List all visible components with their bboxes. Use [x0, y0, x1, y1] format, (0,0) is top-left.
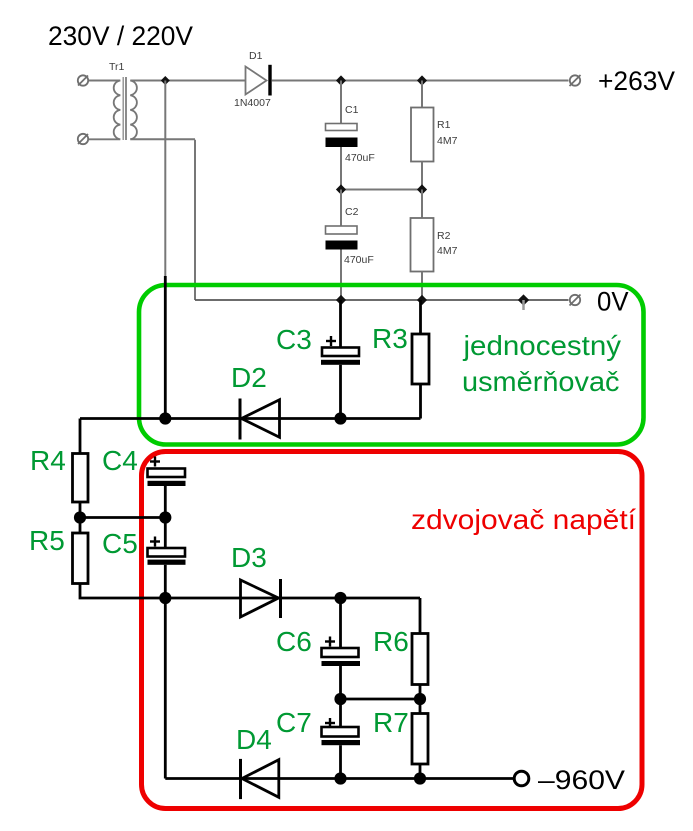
wire R4 bottom lead [79, 502, 82, 518]
capacitor C3 [321, 336, 360, 365]
wire R1 bottom lead [421, 162, 423, 190]
wire R2 top lead [421, 190, 423, 219]
label 4M7 R1 [437, 135, 458, 147]
label R3 [372, 323, 408, 354]
svg-text:Tr1: Tr1 [109, 61, 125, 73]
svg-text:R1: R1 [437, 119, 451, 131]
node 0V at C3 [336, 295, 346, 305]
svg-text:1N4007: 1N4007 [234, 97, 271, 109]
svg-text:R6: R6 [373, 626, 409, 657]
resistor R3 [412, 334, 429, 384]
terminal +263V [570, 75, 581, 86]
node 0V at R3 [417, 295, 427, 305]
svg-text:–960V: –960V [538, 765, 625, 795]
node D2 right [334, 412, 346, 424]
svg-text:4M7: 4M7 [437, 135, 458, 147]
node R1 bottom [417, 184, 427, 194]
wire C3 top lead [339, 300, 342, 348]
wire D4 row [165, 777, 513, 780]
capacitor C4 [148, 457, 186, 487]
wire C6 bottom lead [339, 666, 342, 699]
label C2 [345, 206, 359, 218]
node R6 bottom [414, 693, 426, 705]
wire R6 bottom lead [419, 685, 422, 700]
wire R1 top lead [421, 81, 423, 108]
svg-text:R3: R3 [372, 323, 408, 354]
label R1 [437, 119, 451, 131]
wire R7 bottom lead [419, 764, 422, 779]
node R7 bottom [414, 772, 426, 784]
svg-text:C1: C1 [345, 104, 359, 116]
svg-text:470uF: 470uF [345, 152, 375, 164]
wire C1 bottom lead [340, 147, 342, 190]
wire left drop to D4 [164, 598, 167, 779]
svg-text:C3: C3 [276, 324, 312, 355]
svg-text:C5: C5 [102, 528, 138, 559]
label 1N4007 [234, 97, 271, 109]
wire D2 row [80, 384, 421, 419]
wire C1-R1 bottom row [341, 189, 422, 191]
resistor R6 [412, 634, 428, 685]
wire R5 top lead [79, 518, 82, 534]
label R6 [373, 626, 409, 657]
terminal 0V [570, 295, 581, 306]
wire R7 top lead [419, 699, 422, 714]
wire C2 bottom lead [340, 250, 342, 301]
svg-text:230V / 220V: 230V / 220V [48, 21, 193, 51]
node D2 left [159, 412, 171, 424]
label C6 [276, 626, 312, 657]
label -960V [538, 765, 625, 795]
wire C1 top lead [340, 81, 342, 124]
diode D2 [240, 399, 280, 440]
svg-text:D1: D1 [249, 50, 263, 62]
transformer Tr1 [89, 77, 137, 140]
wire D1 to +263V [272, 80, 569, 82]
wire left column black overlay [164, 276, 167, 419]
node C1 bottom [336, 184, 346, 194]
terminal -960V [514, 771, 529, 786]
wire C6 top lead [339, 598, 342, 648]
label 470uF C2 [344, 254, 374, 266]
diode D4 [241, 759, 279, 799]
wire R3 top lead [419, 300, 422, 334]
label R5 [29, 525, 65, 556]
label zdvojovac napeti [411, 504, 636, 535]
wire C3 bottom lead [339, 365, 342, 419]
diode D3 [241, 579, 281, 618]
label 0V [597, 287, 629, 317]
wire C5 top lead [164, 518, 167, 549]
wire C2 top lead [340, 190, 342, 227]
label C1 [345, 104, 359, 116]
node C4 bottom [159, 511, 171, 523]
svg-text:C6: C6 [276, 626, 312, 657]
svg-text:0V: 0V [597, 287, 629, 317]
node C6 bottom [334, 693, 346, 705]
svg-text:zdvojovač napětí: zdvojovač napětí [411, 504, 636, 535]
resistor R4 [73, 454, 89, 503]
svg-text:R5: R5 [29, 525, 65, 556]
svg-text:D4: D4 [236, 724, 272, 755]
label D1 [249, 50, 263, 62]
node D3 left [159, 592, 171, 604]
box zdvojovac napeti [142, 452, 643, 809]
label R7 [373, 707, 409, 738]
wire C6-R6 row [341, 698, 421, 701]
label R2 [437, 230, 451, 242]
label D3 [231, 542, 267, 573]
capacitor C6 [322, 637, 361, 667]
svg-text:R7: R7 [373, 707, 409, 738]
label +263V [598, 66, 675, 96]
resistor R1 [411, 108, 434, 162]
label C7 [276, 707, 312, 738]
label C3 [276, 324, 312, 355]
node C7 bottom [334, 772, 346, 784]
label jednocestny [462, 330, 621, 361]
wire R2 bottom lead [421, 272, 423, 301]
wire C4 bottom lead [164, 486, 167, 518]
node D3 right [334, 592, 346, 604]
svg-text:usměrňovač: usměrňovač [462, 366, 620, 397]
svg-text:R4: R4 [30, 445, 66, 476]
wire primary top [89, 80, 120, 82]
node C1 top [336, 75, 346, 85]
node secondary top junction [161, 76, 170, 85]
capacitor C7 [322, 718, 361, 745]
terminal input top [78, 75, 88, 85]
wire R5 bottom lead [80, 584, 165, 599]
capacitor C1 [326, 124, 358, 148]
label 230V / 220V [48, 21, 193, 51]
svg-text:4M7: 4M7 [437, 245, 458, 257]
wire R4-C4 row [80, 516, 165, 519]
box jednocestny usmernovac [139, 285, 644, 445]
wire C7 top lead [339, 699, 342, 727]
wire secondary top [130, 80, 245, 82]
terminal input bottom [78, 134, 88, 144]
svg-text:C2: C2 [345, 206, 359, 218]
capacitor C5 [148, 537, 186, 565]
svg-text:D3: D3 [231, 542, 267, 573]
diode D1 [246, 65, 272, 96]
wire down from secondary bottom [194, 140, 196, 300]
resistor R7 [412, 714, 428, 765]
label 4M7 R2 [437, 245, 458, 257]
label D2 [231, 362, 267, 393]
wire secondary bottom [130, 138, 195, 140]
svg-text:jednocestný: jednocestný [462, 330, 621, 361]
wire R4 top lead [79, 419, 82, 454]
svg-text:C7: C7 [276, 707, 312, 738]
label 470uF [345, 152, 375, 164]
node R4 bottom [74, 511, 86, 523]
label C4 [102, 445, 138, 476]
svg-text:470uF: 470uF [344, 254, 374, 266]
wire C5 bottom lead [164, 565, 167, 598]
svg-text:R2: R2 [437, 230, 451, 242]
svg-text:C4: C4 [102, 445, 138, 476]
label C5 [102, 528, 138, 559]
label R4 [30, 445, 66, 476]
node 0V stub [518, 294, 529, 310]
wire left column gray [164, 81, 166, 306]
resistor R5 [73, 533, 89, 584]
wire D3 row [165, 598, 420, 634]
label D4 [236, 724, 272, 755]
capacitor C2 [326, 226, 358, 250]
node R1 top [417, 75, 427, 85]
resistor R2 [411, 218, 434, 272]
wire C7 bottom lead [339, 745, 342, 778]
svg-text:+263V: +263V [598, 66, 675, 96]
wire 0V rail [195, 299, 569, 301]
label usmernovac [462, 366, 620, 397]
label Tr1 [109, 61, 125, 73]
svg-text:D2: D2 [231, 362, 267, 393]
